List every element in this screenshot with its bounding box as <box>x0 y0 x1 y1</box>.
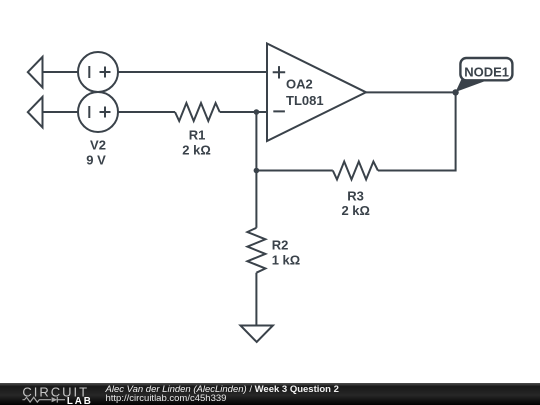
svg-text:R3: R3 <box>347 188 364 203</box>
svg-text:2 kΩ: 2 kΩ <box>341 203 370 218</box>
svg-text:2 kΩ: 2 kΩ <box>182 143 211 158</box>
svg-text:OA2: OA2 <box>286 77 313 92</box>
svg-text:9 V: 9 V <box>86 152 106 167</box>
svg-text:1 kΩ: 1 kΩ <box>272 252 301 267</box>
svg-text:LAB: LAB <box>67 396 93 405</box>
svg-text:R2: R2 <box>272 237 289 252</box>
svg-text:V2: V2 <box>90 138 106 153</box>
svg-text:NODE1: NODE1 <box>464 64 509 79</box>
svg-text:R1: R1 <box>189 128 206 143</box>
svg-text:TL081: TL081 <box>286 93 324 108</box>
